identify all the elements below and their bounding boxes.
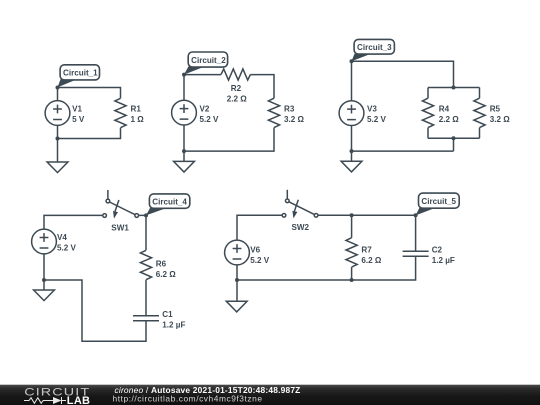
- svg-text:3.2 Ω: 3.2 Ω: [490, 115, 511, 124]
- svg-text:SW2: SW2: [292, 223, 310, 232]
- svg-text:http://circuitlab.com/cvh4mc9f: http://circuitlab.com/cvh4mc9f3tzne: [113, 393, 263, 403]
- svg-text:5.2 V: 5.2 V: [57, 244, 77, 253]
- svg-text:R6: R6: [156, 260, 167, 269]
- svg-text:LAB: LAB: [67, 395, 91, 405]
- svg-text:V4: V4: [57, 233, 67, 242]
- svg-text:C1: C1: [162, 310, 173, 319]
- svg-text:V1: V1: [72, 105, 82, 114]
- svg-text:Circuit_4: Circuit_4: [152, 198, 187, 207]
- svg-text:R3: R3: [284, 105, 295, 114]
- svg-text:1 Ω: 1 Ω: [131, 115, 145, 124]
- svg-text:5.2 V: 5.2 V: [367, 115, 387, 124]
- svg-text:Circuit_5: Circuit_5: [421, 197, 456, 206]
- svg-text:3.2 Ω: 3.2 Ω: [284, 115, 305, 124]
- svg-text:Circuit_1: Circuit_1: [63, 69, 98, 78]
- svg-text:5.2 V: 5.2 V: [250, 256, 270, 265]
- svg-text:R7: R7: [361, 246, 372, 255]
- svg-text:2.2 Ω: 2.2 Ω: [439, 115, 460, 124]
- svg-text:5.2 V: 5.2 V: [200, 115, 220, 124]
- svg-text:Circuit_2: Circuit_2: [191, 56, 226, 65]
- svg-text:R1: R1: [131, 105, 142, 114]
- svg-text:1.2 µF: 1.2 µF: [432, 256, 455, 265]
- svg-text:R2: R2: [231, 84, 242, 93]
- svg-text:R5: R5: [490, 105, 501, 114]
- svg-text:6.2 Ω: 6.2 Ω: [361, 256, 382, 265]
- svg-text:V2: V2: [200, 105, 210, 114]
- svg-text:Circuit_3: Circuit_3: [357, 43, 392, 52]
- svg-text:C2: C2: [432, 246, 443, 255]
- svg-text:V6: V6: [250, 246, 260, 255]
- svg-text:V3: V3: [367, 105, 377, 114]
- svg-text:R4: R4: [439, 105, 450, 114]
- svg-text:1.2 µF: 1.2 µF: [162, 320, 185, 329]
- svg-text:2.2 Ω: 2.2 Ω: [227, 94, 248, 103]
- svg-text:5 V: 5 V: [72, 115, 85, 124]
- svg-text:6.2 Ω: 6.2 Ω: [156, 270, 177, 279]
- svg-text:SW1: SW1: [111, 224, 129, 233]
